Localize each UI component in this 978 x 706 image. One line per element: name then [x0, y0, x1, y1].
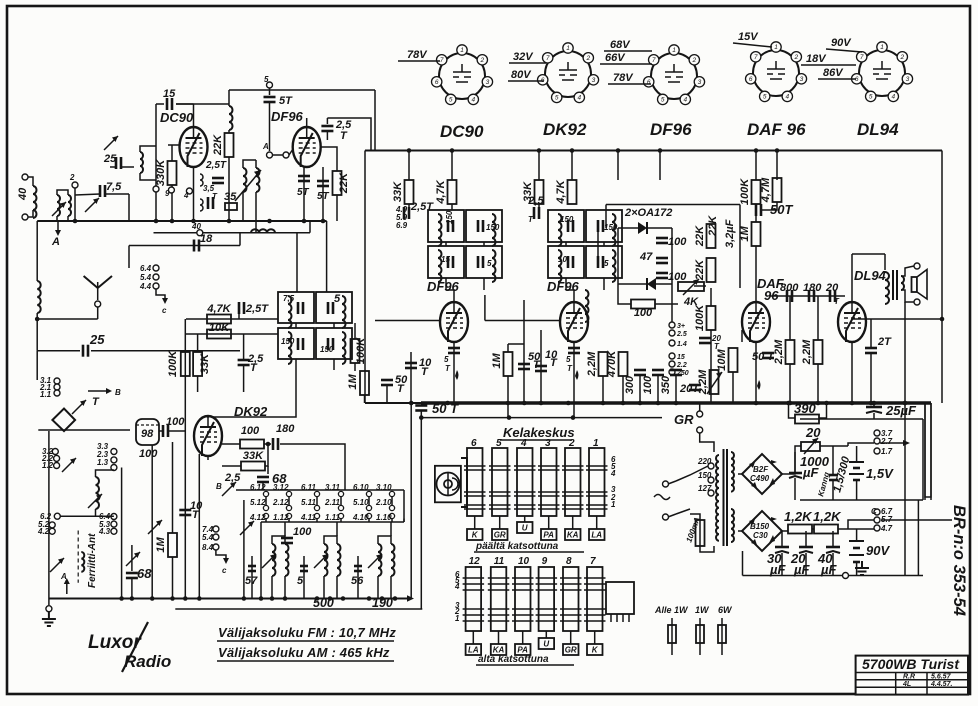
wire	[832, 446, 834, 475]
title block	[856, 656, 968, 695]
svg-text:3: 3	[486, 79, 490, 86]
svg-text:7,5: 7,5	[283, 294, 295, 303]
svg-text:1W: 1W	[695, 605, 710, 615]
svg-text:1M: 1M	[155, 537, 167, 553]
svg-text:25: 25	[89, 332, 105, 347]
wire	[540, 330, 542, 403]
wire	[904, 302, 906, 403]
wire	[168, 144, 180, 146]
switch contact 5.12	[263, 505, 268, 510]
terminal 2.2	[669, 361, 675, 367]
capacitor 100	[656, 238, 668, 243]
tube DK92	[194, 416, 222, 456]
wire	[851, 254, 853, 302]
svg-text:C: C	[871, 507, 877, 516]
wire	[288, 519, 290, 522]
wire	[848, 520, 874, 529]
wire	[856, 480, 858, 500]
wire	[260, 522, 262, 599]
svg-text:3: 3	[545, 438, 551, 449]
wire	[303, 575, 305, 599]
wire	[659, 151, 661, 181]
switch contact 1.10	[389, 513, 394, 518]
svg-text:DK92: DK92	[543, 120, 587, 139]
wire	[390, 576, 392, 599]
wire	[316, 497, 318, 506]
wire	[322, 167, 324, 221]
switch wafer 4	[517, 448, 533, 516]
svg-text:5: 5	[444, 355, 449, 364]
terminal	[708, 463, 714, 469]
svg-text:4,7M: 4,7M	[760, 177, 772, 203]
wire	[410, 403, 412, 599]
junction	[266, 442, 271, 447]
tube base DK92	[538, 43, 599, 103]
switch contact 5.10	[366, 505, 371, 510]
wire	[856, 562, 858, 576]
junction	[393, 596, 398, 601]
svg-text:1M: 1M	[739, 226, 751, 242]
wire	[207, 455, 209, 460]
svg-text:1.1: 1.1	[40, 390, 52, 399]
wire	[36, 351, 38, 380]
svg-text:5: 5	[496, 438, 502, 449]
svg-text:22K: 22K	[212, 134, 224, 156]
tube DF96	[560, 302, 588, 342]
wire	[565, 278, 567, 290]
wire	[239, 233, 241, 246]
svg-text:15: 15	[441, 255, 450, 264]
svg-text:22K: 22K	[694, 225, 706, 247]
svg-text:100: 100	[668, 236, 687, 248]
wire	[391, 519, 393, 522]
junction	[903, 401, 908, 406]
svg-text:100K: 100K	[739, 178, 751, 205]
wire	[131, 545, 133, 571]
svg-text:B: B	[115, 388, 121, 397]
wire	[57, 190, 68, 195]
svg-text:10K: 10K	[209, 322, 230, 334]
capacitor	[568, 256, 573, 268]
svg-text:22K: 22K	[694, 259, 706, 281]
svg-text:390: 390	[794, 401, 816, 416]
svg-text:90V: 90V	[866, 543, 890, 558]
wire	[336, 522, 338, 536]
terminal	[111, 457, 117, 463]
trimmer cap 56	[357, 560, 359, 575]
wire	[618, 284, 631, 304]
junction	[367, 596, 372, 601]
junction	[824, 401, 829, 406]
capacitor	[809, 290, 814, 302]
svg-text:GR: GR	[494, 531, 506, 540]
svg-text:20: 20	[825, 282, 839, 294]
wire	[333, 359, 335, 370]
fuse	[671, 618, 673, 655]
wire	[327, 118, 371, 151]
wire	[884, 254, 886, 270]
svg-text:33K: 33K	[199, 353, 211, 374]
svg-text:2.12: 2.12	[272, 498, 289, 507]
wire	[97, 307, 99, 319]
svg-text:alta katsottuna: alta katsottuna	[478, 654, 549, 665]
switch contact 5.11	[314, 505, 319, 510]
battery 90V	[849, 540, 864, 542]
svg-text:C30: C30	[753, 531, 768, 540]
tube DF96	[293, 127, 321, 167]
contact label GR	[492, 529, 508, 540]
svg-text:U: U	[543, 640, 549, 649]
terminal 250	[669, 369, 675, 375]
wire	[657, 375, 659, 403]
svg-text:2.7: 2.7	[880, 437, 893, 446]
switch contact 3.11	[338, 491, 343, 496]
wire	[228, 157, 230, 221]
terminal	[697, 427, 703, 433]
wire	[794, 452, 796, 473]
capacitor	[448, 348, 460, 353]
svg-text:5: 5	[869, 94, 873, 101]
svg-text:5.6.57: 5.6.57	[931, 674, 952, 681]
capacitor	[298, 302, 303, 314]
switch contact 6.10	[366, 491, 371, 496]
wire	[265, 497, 267, 506]
capacitor	[298, 176, 310, 181]
wire	[354, 323, 356, 339]
diode D1	[638, 222, 647, 234]
junction	[283, 596, 288, 601]
capacitor 1,5/300	[829, 474, 838, 477]
terminal	[708, 490, 714, 496]
svg-text:127: 127	[698, 484, 712, 493]
svg-text:2,5T: 2,5T	[245, 303, 269, 315]
coil cathode	[200, 174, 203, 186]
wire	[155, 192, 157, 221]
capacitor	[328, 302, 333, 314]
coil	[37, 281, 41, 313]
svg-text:18: 18	[200, 233, 213, 245]
capacitor	[126, 573, 138, 578]
wire	[817, 364, 819, 403]
svg-text:2: 2	[69, 173, 75, 182]
tuning coil pair	[272, 544, 276, 576]
potentiometer 20	[801, 442, 820, 451]
terminal	[168, 187, 174, 193]
wire	[154, 232, 311, 234]
capacitor	[194, 240, 199, 252]
terminal	[54, 390, 60, 396]
wire	[336, 195, 338, 221]
IF transformer box	[586, 210, 622, 242]
resistor 4,7K	[207, 315, 231, 324]
svg-text:1.11: 1.11	[325, 513, 341, 522]
svg-text:päältä katsottuna: päältä katsottuna	[475, 541, 559, 552]
svg-text:3: 3	[906, 76, 910, 83]
svg-text:2.5: 2.5	[676, 331, 687, 338]
junction	[154, 219, 159, 224]
svg-text:9: 9	[542, 556, 548, 567]
capacitor	[328, 338, 333, 350]
terminal	[111, 449, 117, 455]
svg-text:2: 2	[479, 57, 484, 64]
wire	[129, 245, 240, 247]
primary winding	[716, 455, 719, 541]
diode D2	[647, 278, 656, 290]
svg-text:98: 98	[141, 428, 154, 440]
wire	[151, 445, 153, 599]
wire	[186, 318, 278, 320]
wire	[365, 402, 421, 404]
svg-text:6: 6	[435, 79, 439, 86]
wire	[597, 222, 599, 258]
wire	[171, 185, 173, 221]
wire	[873, 413, 875, 419]
junction	[674, 401, 679, 406]
capacitor 2,5	[534, 207, 539, 219]
potentiometer 4K	[678, 282, 704, 291]
junction	[570, 148, 575, 153]
tube DL94	[838, 302, 866, 342]
resistor 100	[240, 440, 264, 449]
wire	[295, 323, 297, 328]
wire	[210, 359, 296, 417]
wire	[333, 323, 335, 328]
junction	[191, 219, 196, 224]
wire	[251, 575, 253, 599]
wire	[326, 221, 328, 292]
adjust arrow	[72, 400, 86, 414]
svg-text:DL94: DL94	[857, 120, 899, 139]
wire	[700, 546, 714, 552]
coil	[492, 214, 496, 246]
svg-text:A: A	[51, 236, 60, 248]
resistor	[788, 525, 812, 534]
wire	[805, 531, 807, 547]
junction	[315, 596, 320, 601]
wire	[176, 103, 194, 105]
resistor 22K	[333, 171, 342, 195]
svg-text:12: 12	[469, 556, 481, 567]
svg-text:5T: 5T	[279, 95, 293, 107]
svg-text:2.11: 2.11	[324, 498, 341, 507]
wire	[36, 221, 38, 281]
terminal 2	[72, 182, 78, 188]
wire	[172, 442, 174, 533]
svg-text:5: 5	[661, 97, 665, 104]
svg-text:1,2K: 1,2K	[813, 509, 842, 524]
svg-text:90V: 90V	[831, 37, 852, 49]
wire	[573, 342, 575, 403]
svg-text:150: 150	[320, 345, 334, 354]
svg-text:100: 100	[139, 448, 158, 460]
svg-text:4: 4	[610, 469, 616, 478]
wire	[408, 204, 410, 218]
svg-text:Välijaksoluku AM : 465 kHz: Välijaksoluku AM : 465 kHz	[218, 645, 390, 660]
svg-text:78V: 78V	[613, 72, 634, 84]
wire	[222, 443, 240, 445]
antenna coil 2	[68, 195, 71, 216]
svg-text:150: 150	[698, 471, 712, 480]
wire	[105, 193, 129, 195]
junction	[380, 596, 385, 601]
switch wafer 8	[563, 567, 579, 631]
oscillator coil L3	[243, 168, 260, 192]
arrow C	[223, 558, 229, 564]
svg-text:2: 2	[793, 54, 798, 61]
junction	[242, 596, 247, 601]
tuning coil pair	[324, 544, 328, 576]
tuning coil pair	[378, 544, 382, 576]
wire	[255, 192, 257, 233]
wire	[710, 330, 712, 403]
svg-text:1: 1	[460, 47, 464, 54]
svg-text:DF96: DF96	[427, 279, 460, 294]
resistor 10M	[729, 348, 738, 372]
capacitor	[381, 380, 393, 385]
wire	[770, 295, 845, 297]
coil	[558, 214, 562, 246]
switch contact 2.11	[338, 505, 343, 510]
wire	[238, 313, 240, 319]
terminal	[49, 522, 55, 528]
wire	[273, 154, 284, 156]
arrow	[881, 519, 952, 521]
svg-text:15: 15	[163, 88, 176, 100]
svg-text:100K: 100K	[167, 350, 179, 377]
wire	[375, 320, 440, 322]
wire	[676, 509, 690, 514]
svg-text:5T: 5T	[297, 187, 310, 198]
resistor 22K	[707, 258, 716, 282]
terminal	[54, 455, 60, 461]
wire	[323, 576, 325, 599]
antenna	[84, 276, 112, 288]
wire	[762, 202, 777, 210]
wire	[602, 376, 604, 403]
wire	[812, 528, 814, 530]
junction	[73, 219, 78, 224]
svg-text:300: 300	[624, 375, 636, 394]
svg-text:1M: 1M	[491, 353, 503, 369]
wire	[781, 553, 783, 576]
svg-text:1.7: 1.7	[881, 447, 893, 456]
wire	[617, 151, 619, 181]
wire	[848, 443, 874, 446]
capacitor	[208, 197, 213, 209]
wire	[618, 227, 638, 229]
svg-text:66V: 66V	[605, 52, 626, 64]
wire	[603, 278, 605, 290]
svg-text:2,2M: 2,2M	[697, 369, 709, 395]
svg-text:100K: 100K	[355, 337, 367, 364]
coil	[558, 250, 562, 282]
tube DF96	[440, 302, 468, 342]
wire	[272, 536, 285, 544]
wire	[622, 376, 624, 403]
svg-text:2,5: 2,5	[527, 195, 544, 207]
capacitor	[179, 510, 191, 515]
wire	[159, 430, 163, 432]
junction	[869, 401, 874, 406]
adjust arrow	[52, 202, 66, 216]
terminal 40	[197, 230, 203, 236]
wire	[321, 147, 338, 171]
capacitor	[116, 157, 121, 169]
svg-text:5: 5	[566, 355, 571, 364]
junction	[601, 401, 606, 406]
svg-text:100: 100	[293, 526, 312, 538]
wire	[739, 205, 741, 289]
wire	[67, 216, 69, 221]
junction	[130, 596, 135, 601]
svg-text:5T: 5T	[317, 191, 330, 202]
wire	[284, 522, 286, 536]
adjust arrow long	[235, 170, 261, 201]
wire	[647, 227, 672, 229]
osc coil	[96, 477, 100, 509]
wire	[48, 431, 50, 599]
capacitor 2T	[865, 348, 877, 353]
capacitor	[238, 360, 250, 365]
wire	[870, 319, 872, 348]
svg-text:4: 4	[785, 94, 789, 101]
terminal	[111, 514, 117, 520]
svg-text:B150: B150	[750, 522, 770, 531]
svg-text:µF: µF	[802, 465, 819, 480]
wire	[251, 556, 253, 560]
adjust arrow	[126, 552, 140, 566]
wire	[699, 403, 701, 411]
svg-text:100: 100	[241, 425, 260, 437]
wire	[668, 514, 676, 517]
svg-text:5: 5	[334, 293, 341, 305]
wire	[128, 260, 130, 268]
contact label KA	[565, 529, 581, 540]
resistor 2,2M	[710, 370, 719, 394]
svg-text:DL94: DL94	[854, 268, 887, 283]
wire	[228, 90, 230, 106]
switch wafer 2	[565, 448, 581, 516]
capacitor	[83, 345, 88, 357]
capacitor	[478, 220, 483, 232]
wire	[690, 514, 700, 520]
wire	[538, 151, 540, 181]
svg-text:DC90: DC90	[160, 110, 194, 125]
wire	[852, 318, 942, 320]
wire	[28, 210, 33, 217]
wire	[207, 417, 209, 418]
wire	[265, 519, 267, 522]
svg-text:1: 1	[611, 500, 616, 509]
wire	[267, 466, 269, 474]
wire	[368, 497, 370, 506]
jack plug	[52, 409, 75, 432]
svg-text:100: 100	[642, 375, 654, 394]
svg-text:800: 800	[780, 282, 799, 294]
terminal	[708, 477, 714, 483]
contact label K	[587, 644, 603, 655]
wire	[37, 350, 80, 352]
wire	[386, 385, 388, 403]
adjust arrow	[368, 554, 382, 568]
resistor 22K	[225, 133, 234, 157]
adjust arrow	[104, 136, 118, 150]
coil cathode2	[200, 199, 203, 211]
terminal 4.7	[874, 525, 880, 531]
junction	[341, 596, 346, 601]
svg-text:4: 4	[520, 438, 527, 449]
terminal 5.4	[213, 534, 219, 540]
